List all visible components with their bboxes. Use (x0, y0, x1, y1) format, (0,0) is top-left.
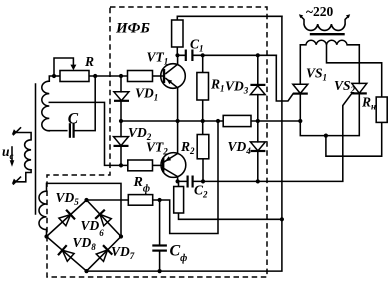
svg-text:~220: ~220 (306, 4, 334, 19)
svg-text:R: R (84, 54, 94, 69)
svg-text:C: C (68, 111, 79, 128)
svg-text:ИФБ: ИФБ (115, 21, 150, 37)
